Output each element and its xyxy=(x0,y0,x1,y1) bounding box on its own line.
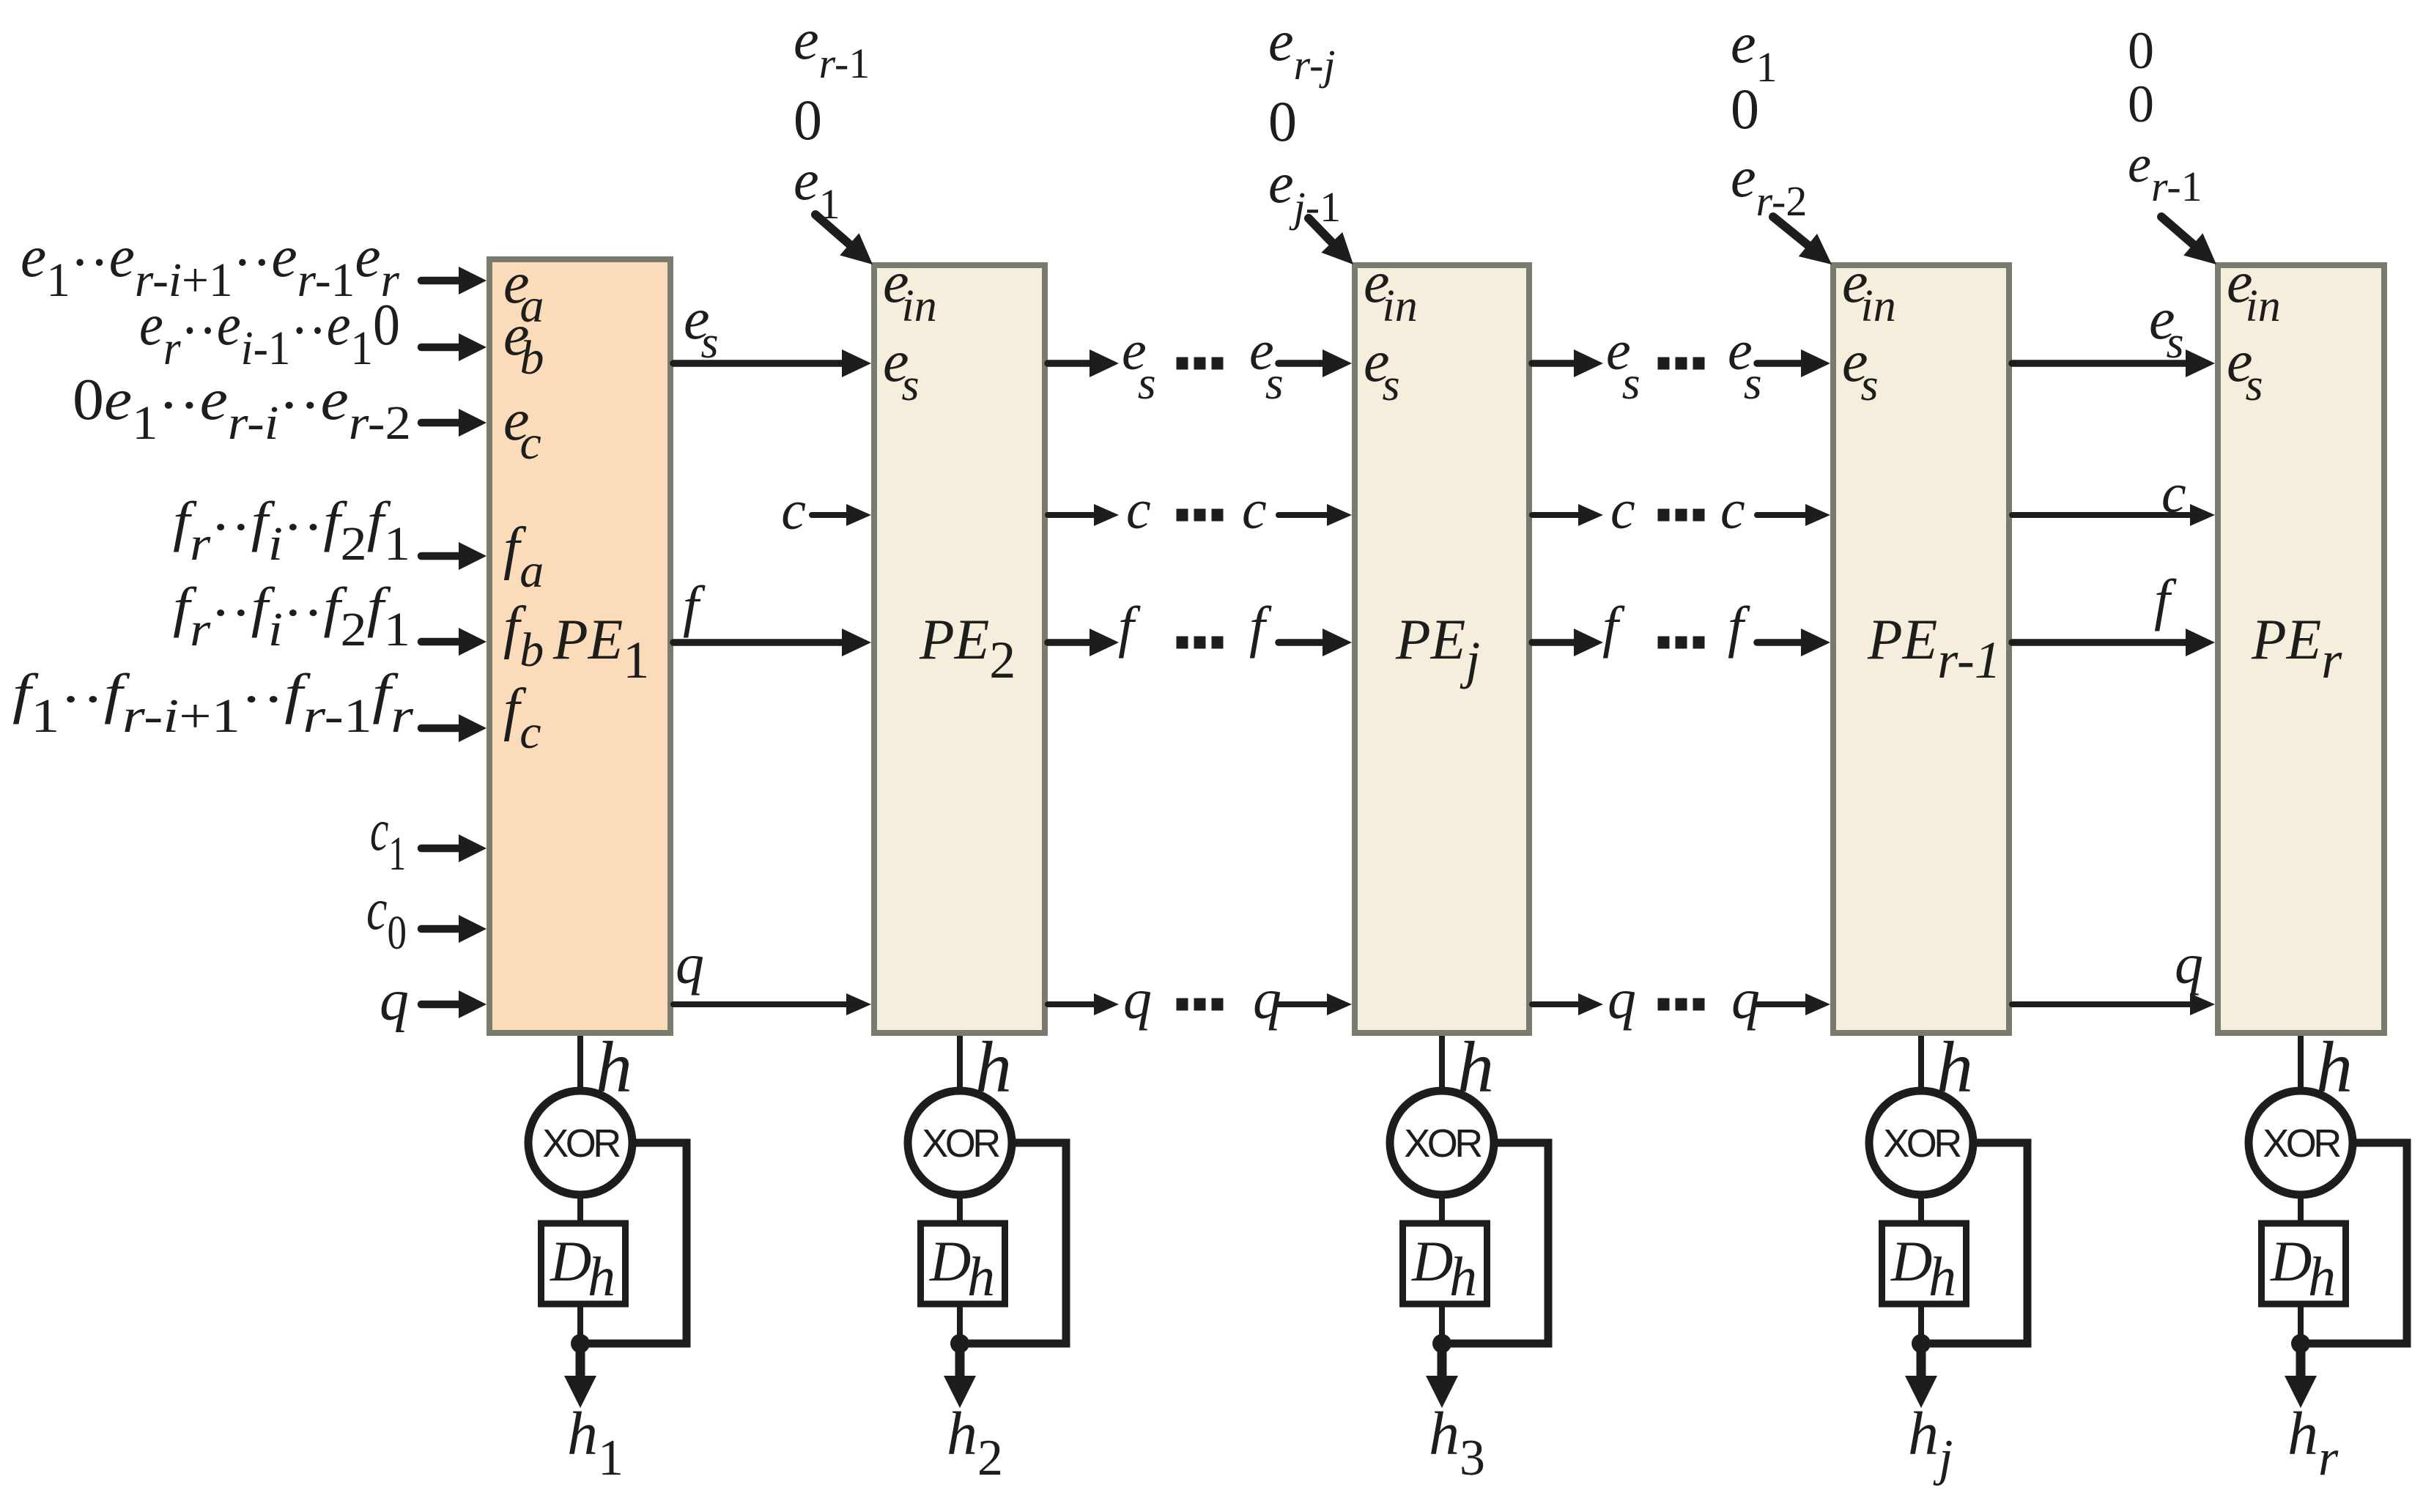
ellipsis dashes q PEj-PEr-1 xyxy=(1658,998,1705,1011)
arrow f PE2-PEj in xyxy=(1279,629,1352,656)
arrow es PEj-PEr-1 in xyxy=(1757,349,1830,377)
input word fc: f1..fr-i+1..fr-1 fr arrow into PE1 xyxy=(421,714,487,742)
wire es PE1 to PE2 xyxy=(673,349,871,377)
arrow q PEj-PEr-1 in xyxy=(1757,993,1830,1015)
wire XOR to Dh register under PE2 xyxy=(957,1194,963,1223)
arrow f PEj-PEr-1 out xyxy=(1532,629,1603,656)
XOR gate under PEr-1 xyxy=(1869,1091,1973,1195)
wire h from PE2 to XOR xyxy=(957,1036,963,1091)
arrow es PEj-PEr-1 out xyxy=(1532,349,1603,377)
output arrow hj xyxy=(1905,1344,1937,1408)
svg-text:D: D xyxy=(550,1229,591,1293)
svg-text:q: q xyxy=(380,968,409,1033)
arrow q PEj-PEr-1 out xyxy=(1532,993,1603,1015)
svg-text:c: c xyxy=(1610,479,1635,541)
ellipsis dashes c PE2-PEj xyxy=(1177,509,1224,522)
svg-text:h: h xyxy=(1449,1246,1477,1308)
arrow c PE2-PEj out xyxy=(1048,504,1119,526)
register Dh under PEr-1 xyxy=(1882,1223,1967,1304)
svg-text:c: c xyxy=(2161,463,2186,525)
svg-text:0: 0 xyxy=(1268,89,1297,153)
register Dh under PEj xyxy=(1403,1223,1487,1304)
svg-text:XOR: XOR xyxy=(2263,1122,2340,1165)
svg-text:h: h xyxy=(588,1246,615,1308)
processing element PEr-1 block xyxy=(1833,265,2009,1033)
wire Dh to output node under PE1 xyxy=(577,1304,583,1344)
wire c PEr-1 to PEr xyxy=(2012,504,2215,526)
junction node under PE2 xyxy=(950,1334,969,1353)
svg-text:h: h xyxy=(2308,1246,2336,1308)
arrow c PEj-PEr-1 in xyxy=(1757,504,1830,526)
svg-text:XOR: XOR xyxy=(542,1122,620,1165)
svg-text:0: 0 xyxy=(2128,75,2154,133)
wire XOR to Dh register under PE1 xyxy=(577,1194,583,1223)
feedback wire Dh output to XOR under PEr xyxy=(2301,1143,2407,1344)
wire h from PEj to XOR xyxy=(1439,1036,1445,1091)
wire q PE1 to PE2 xyxy=(673,993,871,1015)
wire f PE1 to PE2 xyxy=(673,629,871,656)
input word ea: e1..er-i+1..er-1 er arrow into PE1 xyxy=(421,267,487,294)
input c1 arrow into PE1 xyxy=(421,834,487,862)
diagonal input arrow into PEr ein xyxy=(2161,217,2216,264)
svg-text:c: c xyxy=(1242,479,1267,541)
svg-text:q: q xyxy=(1123,967,1152,1031)
diagonal input arrow into PEj ein xyxy=(1309,218,1353,264)
output arrow h1 xyxy=(564,1344,596,1408)
XOR gate under PEj xyxy=(1390,1091,1494,1195)
svg-text:D: D xyxy=(1890,1229,1932,1293)
register Dh under PE2 xyxy=(921,1223,1005,1304)
wire Dh to output node under PEr-1 xyxy=(1918,1304,1924,1344)
arrow c PE2-PEj in xyxy=(1279,504,1352,526)
arrow c into PE2 xyxy=(812,504,871,526)
diagonal input arrow into PEr-1 ein xyxy=(1773,217,1832,264)
input word fb: fr..fi..f2 f1 arrow into PE1 xyxy=(421,628,487,656)
feedback wire Dh output to XOR under PEj xyxy=(1442,1143,1548,1344)
ellipsis dashes q PE2-PEj xyxy=(1177,998,1224,1011)
wire h from PEr-1 to XOR xyxy=(1918,1036,1924,1091)
arrow q PE2-PEj in xyxy=(1279,993,1352,1015)
output arrow h3 xyxy=(1426,1344,1458,1408)
svg-text:0: 0 xyxy=(1731,77,1759,141)
wire XOR to Dh register under PEr xyxy=(2298,1194,2304,1223)
svg-text:q: q xyxy=(676,932,704,996)
ellipsis dashes es PE2-PEj xyxy=(1177,357,1224,370)
wire h from PEr to XOR xyxy=(2298,1036,2304,1091)
arrow c PEj-PEr-1 out xyxy=(1532,504,1603,526)
arrow q PE2-PEj out xyxy=(1048,993,1119,1015)
feedback wire Dh output to XOR under PEr-1 xyxy=(1921,1143,2027,1344)
input q arrow into PE1 xyxy=(421,990,487,1018)
svg-text:c: c xyxy=(1720,479,1745,541)
svg-text:D: D xyxy=(1411,1229,1453,1293)
junction node under PEr xyxy=(2291,1334,2310,1353)
input word fa: fr..fi..f2 f1 arrow into PE1 xyxy=(421,542,487,570)
arrow f PE2-PEj out xyxy=(1048,629,1119,656)
wire Dh to output node under PE2 xyxy=(957,1304,963,1344)
processing element PE2 block xyxy=(874,265,1045,1033)
processing element PEj block xyxy=(1355,265,1529,1033)
XOR gate under PEr xyxy=(2249,1091,2353,1195)
wire q PEr-1 to PEr xyxy=(2012,993,2215,1015)
wire XOR to Dh register under PEj xyxy=(1439,1194,1445,1223)
wire es PEr-1 to PEr xyxy=(2012,349,2215,377)
svg-text:c: c xyxy=(781,480,806,541)
junction node under PEj xyxy=(1432,1334,1451,1353)
register Dh under PE1 xyxy=(541,1223,626,1304)
svg-text:h: h xyxy=(1928,1246,1956,1308)
wire f PEr-1 to PEr xyxy=(2012,629,2215,656)
svg-text:0: 0 xyxy=(794,88,822,152)
wire Dh to output node under PEj xyxy=(1439,1304,1445,1344)
processing element PEr block xyxy=(2218,265,2384,1033)
input c0 arrow into PE1 xyxy=(421,915,487,943)
processing element PE1 block xyxy=(489,259,670,1033)
feedback wire Dh output to XOR under PE2 xyxy=(960,1143,1066,1344)
arrow es PE2-PEj out xyxy=(1048,349,1119,377)
svg-text:q: q xyxy=(1253,967,1281,1031)
wire XOR to Dh register under PEr-1 xyxy=(1918,1194,1924,1223)
junction node under PEr-1 xyxy=(1912,1334,1931,1353)
ellipsis dashes c PEj-PEr-1 xyxy=(1658,509,1705,522)
svg-text:XOR: XOR xyxy=(1883,1122,1961,1165)
diagonal input arrow into PE2 ein xyxy=(815,215,873,264)
svg-text:XOR: XOR xyxy=(922,1122,999,1165)
input word eb: er..ei-1..e1 0 arrow into PE1 xyxy=(421,333,487,361)
XOR gate under PE2 xyxy=(908,1091,1012,1195)
ellipsis dashes f PEj-PEr-1 xyxy=(1658,637,1705,649)
wire Dh to output node under PEr xyxy=(2298,1304,2304,1344)
arrow es PE2-PEj in xyxy=(1279,349,1352,377)
svg-text:q: q xyxy=(2175,932,2203,996)
svg-text:q: q xyxy=(1608,967,1636,1031)
svg-text:q: q xyxy=(1731,967,1760,1031)
svg-text:XOR: XOR xyxy=(1404,1122,1482,1165)
register Dh under PEr xyxy=(2262,1223,2346,1304)
ellipsis dashes f PE2-PEj xyxy=(1177,637,1224,649)
ellipsis dashes es PEj-PEr-1 xyxy=(1658,357,1705,370)
wire h from PE1 to XOR xyxy=(577,1036,583,1091)
svg-text:D: D xyxy=(929,1229,971,1293)
svg-text:h: h xyxy=(967,1246,995,1308)
feedback wire Dh output to XOR under PE1 xyxy=(580,1143,687,1344)
svg-text:D: D xyxy=(2270,1229,2312,1293)
output arrow hr xyxy=(2285,1344,2317,1408)
svg-text:c: c xyxy=(1126,479,1151,541)
svg-text:0: 0 xyxy=(2128,21,2154,80)
output arrow h2 xyxy=(944,1344,976,1408)
input word ec: 0 e1..er-i..er-2 arrow into PE1 xyxy=(421,409,487,437)
arrow f PEj-PEr-1 in xyxy=(1757,629,1830,656)
junction node under PE1 xyxy=(571,1334,590,1353)
XOR gate under PE1 xyxy=(528,1091,632,1195)
